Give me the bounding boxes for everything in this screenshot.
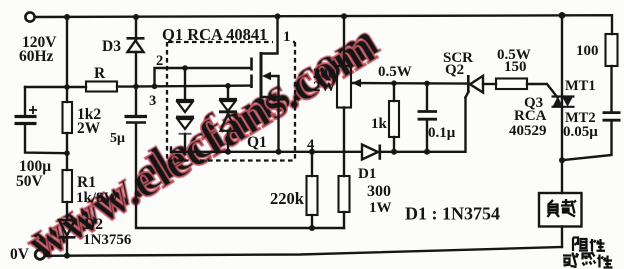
svg-text:0.05μ: 0.05μ [563,124,598,140]
svg-text:1k: 1k [371,116,388,132]
svg-text:1: 1 [283,29,291,45]
svg-text:2W: 2W [77,120,101,137]
svg-text:D2: D2 [84,216,103,233]
svg-text:D3: D3 [102,38,121,55]
svg-text:0.1μ: 0.1μ [428,125,456,141]
svg-text:www.elecfans.com: www.elecfans.com [17,19,385,269]
svg-text:50V: 50V [16,173,44,190]
svg-text:5μ: 5μ [110,131,125,146]
svg-text:MT1: MT1 [565,78,596,94]
svg-text:RCA: RCA [514,108,547,124]
svg-text:0.5W: 0.5W [378,64,412,80]
svg-text:1W: 1W [369,200,392,216]
svg-text:R: R [94,65,106,82]
svg-text:3: 3 [149,93,156,109]
svg-text:D1 : 1N3754: D1 : 1N3754 [405,204,500,224]
svg-text:220k: 220k [270,189,305,208]
svg-text:1N3756: 1N3756 [83,232,132,248]
svg-text:300: 300 [367,183,391,200]
svg-text:4: 4 [307,137,314,153]
svg-text:1k/8W: 1k/8W [76,190,119,206]
svg-text:2W: 2W [313,79,336,95]
svg-text:2: 2 [156,53,163,69]
svg-text:100: 100 [576,43,599,59]
svg-text:Q1: Q1 [247,134,267,151]
svg-text:40529: 40529 [509,123,547,139]
svg-text:R1: R1 [77,174,96,191]
svg-text:D1: D1 [358,166,376,182]
svg-text:150: 150 [504,59,527,75]
svg-text:60Hz: 60Hz [19,48,54,65]
svg-text:Q1 RCA 40841: Q1 RCA 40841 [162,25,267,44]
svg-text:Q2: Q2 [445,62,464,78]
svg-text:0V: 0V [10,246,30,263]
